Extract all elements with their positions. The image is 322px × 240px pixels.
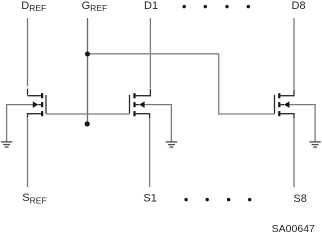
svg-text:S8: S8 — [293, 193, 306, 205]
svg-text:D1: D1 — [144, 0, 158, 12]
svg-text:D8: D8 — [292, 0, 306, 12]
svg-text:SA00647: SA00647 — [272, 223, 315, 235]
svg-text:SREF: SREF — [22, 192, 46, 205]
svg-text:GREF: GREF — [82, 0, 108, 13]
svg-text:DREF: DREF — [21, 0, 46, 13]
svg-text:S1: S1 — [143, 193, 156, 205]
